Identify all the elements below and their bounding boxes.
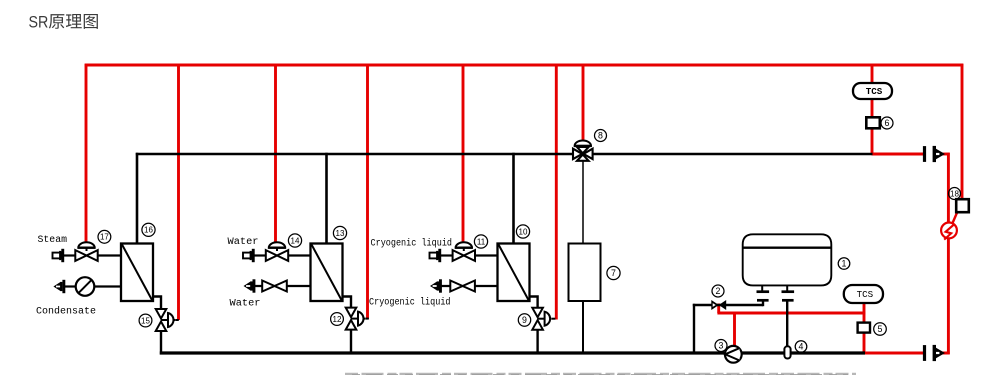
svg-text:11: 11 [477,237,486,246]
svg-text:17: 17 [100,233,109,242]
svg-text:5: 5 [878,324,883,334]
svg-text:Water: Water [230,299,261,310]
svg-text:Cryogenic liquid: Cryogenic liquid [371,237,453,249]
svg-text:Condensate: Condensate [36,306,96,318]
svg-text:9: 9 [522,315,527,325]
svg-text:Cryogenic liquid: Cryogenic liquid [369,297,451,309]
svg-text:1: 1 [842,259,847,269]
svg-text:12: 12 [333,315,342,324]
svg-text:8: 8 [598,131,603,141]
svg-text:Steam: Steam [38,235,68,246]
svg-text:4: 4 [799,342,804,352]
svg-text:16: 16 [144,226,153,235]
svg-text:15: 15 [141,316,150,325]
svg-text:TCS: TCS [857,289,874,300]
svg-text:Water: Water [228,237,259,248]
svg-text:10: 10 [519,227,528,236]
svg-text:TCS: TCS [866,86,883,97]
svg-text:7: 7 [611,268,616,278]
svg-text:6: 6 [885,118,890,128]
svg-text:SR: SR [29,14,49,32]
svg-text:13: 13 [336,229,345,238]
svg-text:3: 3 [719,341,724,351]
svg-text:2: 2 [716,286,721,296]
svg-text:14: 14 [291,236,300,245]
svg-text:18: 18 [950,189,959,198]
